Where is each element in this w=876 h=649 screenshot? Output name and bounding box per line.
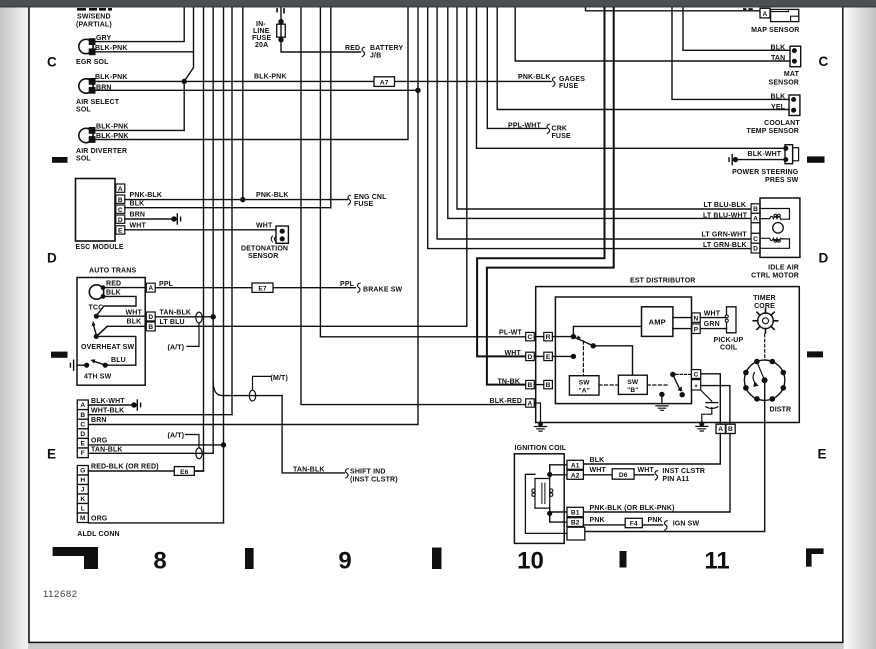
- wire: BLK TCC zigzag: [97, 296, 136, 315]
- wire: C cap down to A: [701, 374, 721, 424]
- svg-text:PL-WT: PL-WT: [499, 329, 522, 336]
- wire: BLK ESC C up x330: [125, 207, 331, 209]
- wire: A1 link: [550, 465, 567, 475]
- wire: vertical x457 LT BLU-BLK to IDLE AIR B: [457, 8, 751, 209]
- ESC pin box E: [116, 226, 125, 234]
- svg-text:IGN SW: IGN SW: [673, 521, 700, 528]
- svg-text:B: B: [80, 412, 85, 419]
- svg-text:LT GRN-WHT: LT GRN-WHT: [702, 232, 748, 239]
- TIMER CORE gear: [758, 313, 774, 329]
- svg-text:LINE: LINE: [253, 28, 270, 35]
- svg-text:C: C: [80, 421, 85, 428]
- ESC module body: [76, 179, 116, 242]
- svg-text:R: R: [546, 334, 551, 341]
- svg-text:10: 10: [517, 547, 544, 574]
- svg-text:BRN: BRN: [96, 84, 112, 91]
- svg-text:BLU: BLU: [111, 357, 126, 364]
- svg-text:A: A: [118, 186, 123, 193]
- wire: vertical x437.1 LT GRN-WHT to IDLE AIR C: [437, 8, 751, 239]
- winding top and bottom ties: [535, 479, 550, 509]
- wire: BLK ign coil A1 to est A: [583, 434, 720, 465]
- wire: vertical x418 BRN net to ALDL C: [88, 8, 418, 425]
- connector F4: [625, 518, 642, 527]
- node WHT contact: [94, 314, 99, 319]
- svg-text:PNK: PNK: [648, 517, 663, 524]
- squiggle ign sw: [664, 521, 667, 531]
- wire: arm end to SW B: [593, 346, 632, 375]
- wire: GRY from EGR SOL up at x184: [95, 8, 185, 42]
- wire: AIR DIVERTER top pin to x184: [95, 129, 185, 131]
- wire: vertical x487.3 CRK FUSE net: [487, 8, 546, 128]
- wire: PPL brake switch through E7: [155, 287, 355, 289]
- ESC pin box B: [116, 195, 125, 203]
- svg-text:E: E: [47, 447, 56, 462]
- wire: BLK-PNK net vertical x184 junction to AIR DIVERTER: [183, 81, 185, 130]
- wire: WHT ESC E to detonation sensor: [125, 229, 276, 231]
- svg-text:PPL-WHT: PPL-WHT: [508, 123, 542, 130]
- wire: vertical x242.8 PNK-BLK ESC net: [242, 8, 244, 200]
- svg-text:IDLE AIR: IDLE AIR: [768, 264, 799, 271]
- wire: vertical x672 BLK to coolant sensor: [672, 8, 789, 99]
- connector bullet on BRN stub: [171, 216, 176, 221]
- wire: BLK-PNK from EGR SOL, down-jog to junction: [95, 8, 194, 81]
- svg-text:CRK: CRK: [552, 126, 568, 133]
- svg-text:A2: A2: [571, 472, 580, 479]
- wire: PNK B2 to F4 and ign sw: [583, 524, 662, 526]
- svg-text:11: 11: [704, 547, 729, 574]
- node R contact: [571, 334, 576, 339]
- wire: vertical x213 TAN-BLK net: [88, 8, 213, 453]
- 4TH SW contacts: [84, 363, 89, 368]
- svg-text:AUTO TRANS: AUTO TRANS: [89, 268, 136, 275]
- wire: vertical x476.5 power steering net: [477, 8, 786, 148]
- svg-text:SW: SW: [627, 379, 639, 386]
- EST A ground stub: [534, 403, 540, 423]
- solenoid AIR DIVERTER SOL: [79, 128, 93, 142]
- wire: A/T tag upper: [187, 323, 199, 346]
- svg-text:TEMP SENSOR: TEMP SENSOR: [747, 128, 799, 135]
- svg-text:BLK-PNK: BLK-PNK: [95, 45, 128, 52]
- svg-text:BRN: BRN: [130, 212, 146, 219]
- svg-text:IGNITION COIL: IGNITION COIL: [515, 445, 567, 452]
- wire: WHT to pin D: [96, 315, 146, 317]
- svg-text:C: C: [528, 334, 533, 341]
- connector D6: [612, 469, 634, 479]
- svg-text:WHT: WHT: [126, 309, 143, 316]
- svg-text:FUSE: FUSE: [552, 133, 571, 140]
- svg-text:C: C: [694, 372, 699, 379]
- svg-text:4TH SW: 4TH SW: [84, 374, 112, 381]
- wire: A/T tag lower: [186, 435, 200, 448]
- svg-text:SENSOR: SENSOR: [769, 79, 799, 86]
- svg-text:FUSE: FUSE: [354, 201, 373, 208]
- svg-text:GRN: GRN: [704, 321, 720, 328]
- connector bullet pres sw: [733, 157, 738, 162]
- POWER STEERING PRES SW body: [785, 145, 793, 164]
- svg-text:BRN: BRN: [91, 417, 107, 424]
- svg-text:FUSE: FUSE: [252, 35, 271, 42]
- svg-text:D6: D6: [619, 472, 628, 479]
- svg-text:E6: E6: [180, 469, 189, 476]
- wire: plus cap down to B: [701, 386, 730, 425]
- svg-text:BLK-PNK: BLK-PNK: [95, 74, 128, 81]
- svg-text:PPL: PPL: [159, 281, 174, 288]
- ground hatch module: [656, 406, 668, 410]
- solenoid EGR SOL: [79, 39, 93, 53]
- pick-up coil symbol: [727, 307, 737, 333]
- svg-text:WHT: WHT: [704, 310, 721, 317]
- node coil top: [547, 472, 552, 477]
- svg-text:D: D: [47, 251, 57, 266]
- svg-text:PIN A11: PIN A11: [662, 476, 689, 483]
- switch arm R to SW B feed: [573, 337, 593, 346]
- wire: PNK-BLK ESC B to ENG CNL fuse: [125, 199, 348, 201]
- svg-text:TN-BK: TN-BK: [498, 378, 521, 385]
- pin box B1: [567, 507, 583, 516]
- wire: AIR DIVERTER bottom BLK-PNK up at x408: [95, 8, 408, 140]
- svg-text:D: D: [118, 217, 123, 224]
- dashed linkage SW B to output switch: [647, 384, 669, 386]
- dashed from output switch to C box: [676, 373, 692, 375]
- svg-text:(A/T): (A/T): [168, 345, 185, 352]
- solenoid AIR SELECT SOL: [79, 79, 93, 93]
- junction node BRN x418: [415, 88, 420, 93]
- coil winding secondary: [549, 479, 551, 509]
- wire: AMP to N: [673, 317, 692, 319]
- svg-text:ALDL CONN: ALDL CONN: [77, 531, 119, 538]
- wire: vertical x223.5 ORG net: [223, 8, 225, 523]
- svg-text:LT BLU: LT BLU: [160, 319, 185, 326]
- svg-text:B: B: [118, 197, 123, 204]
- wire: RED TCC to pin A: [105, 287, 146, 289]
- wire: ORG ALDL E: [88, 444, 223, 446]
- connector A7: [374, 77, 395, 87]
- svg-text:"B": "B": [627, 387, 638, 394]
- squiggle crk fuse: [547, 124, 550, 134]
- connector E6: [174, 467, 194, 476]
- pin box B trans: [146, 322, 155, 331]
- svg-text:COIL: COIL: [720, 345, 738, 352]
- capacitor to ground: [702, 408, 712, 423]
- wire: vertical x232 WHT-BLK net: [231, 8, 233, 415]
- svg-text:(A/T): (A/T): [168, 433, 185, 440]
- wire: BLK overheat to pin B (diagonal): [96, 326, 107, 336]
- svg-text:+: +: [694, 383, 698, 390]
- rotated OIL text at fuse line: [276, 8, 278, 13]
- wire: R contact into module: [552, 336, 573, 338]
- squiggle gages fuse: [552, 77, 555, 87]
- svg-text:A1: A1: [571, 462, 580, 469]
- svg-text:PNK-BLK: PNK-BLK: [518, 74, 551, 81]
- bottom scale corner left: [53, 547, 98, 569]
- coil core lines: [542, 483, 545, 504]
- ignition coil internal frame: [525, 474, 567, 533]
- svg-text:AIR DIVERTER: AIR DIVERTER: [76, 148, 127, 155]
- svg-text:ORG: ORG: [91, 516, 108, 523]
- svg-text:A: A: [763, 11, 768, 18]
- EST DISTRIBUTOR outer box: [536, 287, 800, 423]
- ESC pin box A: [116, 184, 125, 192]
- svg-text:BLK-PNK: BLK-PNK: [96, 123, 129, 130]
- svg-text:D: D: [528, 354, 533, 361]
- wire: pres sw lower lead: [737, 159, 785, 161]
- ground hatch capacitor: [696, 426, 708, 431]
- pin box plus dist cap: [692, 380, 701, 390]
- wire: vertical x497.2 YEL net to coolant sensor: [497, 8, 789, 110]
- top dark bar: [0, 0, 876, 7]
- svg-text:AIR SELECT: AIR SELECT: [76, 99, 120, 106]
- svg-text:IN-: IN-: [256, 21, 266, 28]
- svg-text:20A: 20A: [255, 42, 268, 49]
- wire: vertical x515.2 TAN net to MAT sensor: [515, 8, 790, 61]
- svg-text:(INST CLSTR): (INST CLSTR): [350, 476, 398, 483]
- svg-text:WHT: WHT: [505, 350, 522, 357]
- overheat switch pivot and arm: [94, 334, 99, 339]
- svg-text:A: A: [528, 401, 533, 408]
- ESC pin box D: [116, 215, 125, 223]
- EST inner pin box B2: [544, 380, 553, 388]
- AUTO TRANS body: [77, 278, 145, 386]
- wire: WHT A2 to D6 and inst clstr: [583, 474, 653, 476]
- svg-text:TIMER: TIMER: [753, 295, 776, 302]
- rotor line: [757, 363, 764, 380]
- svg-text:SW: SW: [579, 379, 591, 386]
- svg-text:"A": "A": [578, 387, 589, 394]
- EST inner pin box E: [544, 352, 553, 360]
- capacitor plates: [706, 402, 718, 404]
- EST pin box D: [526, 352, 535, 360]
- svg-text:F: F: [81, 450, 85, 457]
- wire: vertical x427.7 LT GRN-BLK to IDLE AIR D: [428, 8, 751, 249]
- ESC pin box C: [116, 205, 125, 213]
- svg-text:BLK-WHT: BLK-WHT: [748, 151, 782, 158]
- squiggle brake sw: [357, 283, 360, 293]
- squiggle shift ind: [345, 469, 348, 479]
- AMP box: [642, 307, 673, 337]
- wire: vertical x301 BLK-RED net into EST A: [301, 8, 526, 405]
- svg-text:B2: B2: [571, 520, 580, 527]
- detonation sensor body: [276, 226, 288, 243]
- svg-text:C: C: [753, 236, 758, 243]
- connector bullet ALDL A: [131, 402, 136, 407]
- svg-text:BLK: BLK: [106, 290, 121, 297]
- svg-text:EST DISTRIBUTOR: EST DISTRIBUTOR: [630, 277, 696, 284]
- svg-text:BLK-RED: BLK-RED: [490, 398, 523, 405]
- svg-text:ORG: ORG: [91, 438, 108, 445]
- wire: WHT-BLK ALDL B: [88, 414, 232, 416]
- bottom scale tick 1: [245, 548, 254, 569]
- wire: AMP to P: [673, 328, 692, 330]
- svg-text:WHT: WHT: [130, 222, 147, 229]
- wire: vertical x604.5 step to EST D WHT: [477, 8, 604, 356]
- pin box P: [692, 324, 700, 334]
- wire: PNK-BLK ign coil B1 to est B: [583, 434, 730, 513]
- svg-text:BLK: BLK: [127, 319, 142, 326]
- svg-text:E: E: [118, 228, 123, 235]
- svg-text:E: E: [81, 441, 86, 448]
- svg-text:OVERHEAT SW: OVERHEAT SW: [81, 344, 134, 351]
- svg-text:K: K: [80, 496, 85, 503]
- svg-text:BLK: BLK: [130, 200, 145, 207]
- svg-text:B: B: [728, 426, 733, 433]
- svg-text:BLK-PNK: BLK-PNK: [254, 74, 287, 81]
- svg-text:D: D: [753, 246, 758, 253]
- svg-text:WHT: WHT: [590, 467, 607, 474]
- svg-text:TAN: TAN: [771, 55, 785, 62]
- wire: vertical x466.8 LT BLU net to AUTO TRANS B: [96, 8, 467, 336]
- svg-text:PNK-BLK (OR BLK-PNK): PNK-BLK (OR BLK-PNK): [590, 505, 675, 512]
- svg-text:A: A: [80, 402, 85, 409]
- svg-text:TAN-BLK: TAN-BLK: [293, 466, 325, 473]
- option loop ellipse A/T upper: [196, 312, 202, 323]
- svg-text:B: B: [148, 324, 153, 331]
- in-line fuse 20A symbol: [278, 19, 283, 24]
- svg-text:112682: 112682: [43, 589, 78, 600]
- rotor arrow arc: [753, 373, 756, 384]
- squiggle battery: [362, 47, 365, 57]
- svg-text:LT GRN-BLK: LT GRN-BLK: [703, 242, 747, 249]
- svg-text:B: B: [753, 206, 758, 213]
- EST pin box B: [526, 380, 535, 388]
- wire: shift ind drop and run to label: [282, 396, 344, 473]
- wire: RED-BLK ALDL G to E6: [88, 470, 203, 472]
- wire: B1 link: [550, 508, 567, 512]
- svg-text:INST CLSTR: INST CLSTR: [662, 468, 705, 475]
- pin box A trans: [146, 283, 155, 292]
- module ground stub: [659, 392, 664, 397]
- coil winding primary: [534, 479, 536, 509]
- pin box A1: [567, 460, 583, 469]
- wire: vertical x203.5 ALDL G net: [194, 8, 203, 471]
- ALDL pin boxes A-M: [77, 400, 88, 410]
- margin dash left lower: [51, 352, 68, 358]
- wire: C to R stub: [534, 336, 544, 338]
- bottom scale tick 2: [432, 548, 442, 570]
- svg-text:A: A: [148, 285, 153, 292]
- TCC solenoid circle: [89, 285, 103, 299]
- wire: BLK-PNK long horizontal y81.4 to GAGES FUSE: [95, 80, 551, 82]
- pin box C dist cap: [692, 370, 701, 379]
- svg-text:F4: F4: [630, 521, 638, 528]
- IDLE AIR CTRL MOTOR body: [760, 198, 800, 257]
- svg-text:9: 9: [338, 547, 351, 574]
- svg-text:B: B: [546, 382, 551, 389]
- svg-text:C: C: [118, 207, 123, 214]
- svg-text:RED-BLK (OR RED): RED-BLK (OR RED): [91, 463, 159, 470]
- pin box D trans: [146, 312, 155, 321]
- wire: N to pick-up coil: [700, 317, 726, 319]
- svg-text:D: D: [80, 431, 85, 438]
- svg-text:BRAKE SW: BRAKE SW: [363, 286, 403, 293]
- svg-text:D: D: [819, 251, 829, 266]
- svg-text:BATTERY: BATTERY: [370, 45, 404, 52]
- node switch arm end: [591, 343, 596, 348]
- svg-text:MAP SENSOR: MAP SENSOR: [751, 27, 799, 34]
- svg-text:GRY: GRY: [96, 35, 112, 42]
- svg-text:PRES SW: PRES SW: [765, 177, 799, 184]
- node coil bottom: [547, 511, 552, 516]
- wire: vertical x683 BLK to MAT sensor: [683, 8, 790, 50]
- pin box N: [692, 313, 700, 322]
- wire: M/T tag: [253, 376, 271, 389]
- svg-text:E7: E7: [258, 286, 267, 293]
- svg-text:WHT: WHT: [256, 222, 273, 229]
- ground hatch EST A: [534, 427, 546, 432]
- MAT sensor connector: [790, 46, 801, 66]
- svg-text:BLK: BLK: [771, 93, 786, 100]
- svg-text:C: C: [47, 55, 57, 70]
- MAP sensor connector: [760, 8, 770, 18]
- wire: E dead contact: [552, 355, 573, 357]
- svg-text:D: D: [148, 314, 153, 321]
- svg-text:E: E: [546, 354, 551, 361]
- svg-text:PNK: PNK: [590, 517, 605, 524]
- svg-text:L: L: [81, 506, 85, 513]
- bottom scale tick 3: [620, 551, 627, 568]
- dashed shaft timer to distr: [764, 334, 766, 359]
- left gray gradient strip: [0, 0, 1, 1]
- svg-text:A: A: [718, 426, 723, 433]
- pin box A below est: [716, 424, 725, 433]
- pin box B2: [567, 518, 583, 527]
- margin dash right lower: [807, 351, 823, 357]
- svg-text:COOLANT: COOLANT: [764, 120, 800, 127]
- svg-text:SOL: SOL: [76, 156, 91, 163]
- SW A box: [569, 376, 599, 395]
- svg-text:E: E: [818, 447, 827, 462]
- svg-text:N: N: [694, 315, 699, 322]
- wire: vertical x447.8 LT BLU-WHT to IDLE AIR A: [448, 8, 751, 218]
- wire: D to E stub: [534, 355, 544, 357]
- dashed linkage SW A to SW B: [599, 384, 618, 386]
- wire: P to pick-up coil: [700, 328, 726, 330]
- connector E7: [252, 283, 273, 292]
- EST pin box A: [526, 399, 535, 407]
- svg-text:SENSOR: SENSOR: [248, 253, 278, 260]
- svg-text:ENG CNL: ENG CNL: [354, 194, 387, 201]
- DISTR circle: [744, 360, 784, 400]
- wire: MAP sensor lead: [586, 8, 761, 11]
- wire: TAN-BLK trans D to junction: [155, 316, 213, 318]
- wire: coil tower to distributor: [585, 383, 765, 531]
- wire: BRN horizontal y90.3 to junction x418: [95, 89, 418, 91]
- svg-text:DISTR: DISTR: [770, 406, 792, 413]
- svg-text:A7: A7: [380, 79, 389, 86]
- squiggle eng cnl fuse: [348, 195, 351, 205]
- svg-text:J/B: J/B: [370, 53, 381, 60]
- wire: R contact up to AMP: [573, 326, 641, 336]
- SW B box: [618, 375, 647, 394]
- svg-text:YEL: YEL: [771, 104, 786, 111]
- svg-text:G: G: [80, 468, 85, 475]
- svg-text:PICK-UP: PICK-UP: [714, 337, 744, 344]
- wire: A2 link: [550, 475, 567, 479]
- svg-text:BLK: BLK: [771, 44, 786, 51]
- svg-text:RED: RED: [345, 45, 360, 52]
- svg-text:PNK-BLK: PNK-BLK: [130, 192, 163, 199]
- svg-text:PNK-BLK: PNK-BLK: [256, 192, 289, 199]
- wire: vertical x320.4 PL-WT net into EST C: [320, 8, 525, 337]
- wire: loop to 4TH SW: [96, 336, 136, 365]
- option loop ellipse M/T: [249, 390, 255, 401]
- wire: vertical x330.8 ESC BLK net: [330, 8, 332, 208]
- svg-text:AMP: AMP: [649, 317, 666, 326]
- svg-text:C: C: [819, 54, 829, 69]
- option loop ellipse A/T lower: [196, 448, 202, 459]
- svg-text:B: B: [528, 382, 533, 389]
- wire: BRN ESC D stub: [125, 218, 172, 220]
- svg-text:GAGES: GAGES: [559, 76, 585, 83]
